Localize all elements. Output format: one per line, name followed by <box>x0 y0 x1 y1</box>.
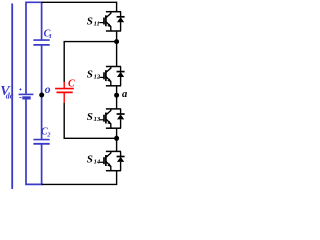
wire junction to S12 collector <box>116 42 118 67</box>
wire top bus blue segment <box>26 2 43 93</box>
svg-text:C: C <box>68 78 75 89</box>
svg-text:S: S <box>87 153 93 165</box>
battery plus sign <box>19 88 21 90</box>
node o junction dot <box>39 93 44 98</box>
svg-text:o: o <box>45 82 51 96</box>
battery negative plate <box>22 96 30 99</box>
wire S11 emitter to junction <box>116 31 118 42</box>
svg-text:1: 1 <box>49 33 52 40</box>
svg-text:a: a <box>122 89 127 100</box>
svg-text:S: S <box>87 111 93 123</box>
label S11 <box>87 15 100 27</box>
label S13 <box>87 111 101 123</box>
label Vdc <box>0 84 14 101</box>
label C1 <box>44 29 52 41</box>
battery positive plate <box>19 93 34 95</box>
switch S11 IGBT with diode <box>99 12 124 31</box>
svg-text:2: 2 <box>46 132 51 139</box>
svg-text:S: S <box>87 15 93 27</box>
svg-text:14: 14 <box>94 158 101 165</box>
DC source Vdc annotation line <box>11 4 13 188</box>
wire battery to bottom bus blue segment <box>26 98 43 184</box>
svg-text:dc: dc <box>6 92 14 101</box>
battery minus sign <box>19 97 21 99</box>
capacitor C2 <box>33 140 49 144</box>
wire S14 emitter to bottom bus black segment <box>42 170 117 184</box>
junction dot S11-S12 <box>114 39 119 44</box>
wire S13 emitter to junction <box>116 128 118 138</box>
label C flying capacitor <box>68 78 75 89</box>
label S14 <box>87 153 101 165</box>
wire S12 emitter to node a <box>116 86 118 109</box>
switch S14 IGBT with diode <box>99 151 124 170</box>
label C2 <box>41 126 51 138</box>
flying capacitor C (red) <box>55 82 74 103</box>
wire top bus black segment <box>42 2 117 11</box>
switch S13 IGBT with diode <box>99 109 124 128</box>
junction dot S13-S14 <box>114 136 119 141</box>
label node o <box>45 82 51 96</box>
svg-text:13: 13 <box>94 116 101 123</box>
wire junction to flying capacitor top <box>64 42 116 82</box>
capacitor C1 <box>33 40 49 45</box>
label node a <box>122 89 127 100</box>
switch S12 IGBT with diode <box>99 67 124 86</box>
label S12 <box>87 69 101 81</box>
svg-text:S: S <box>87 69 93 81</box>
wire capacitor rail middle <box>41 45 43 140</box>
wire junction to S14 collector <box>116 138 118 151</box>
wire capacitor rail upper <box>41 2 43 40</box>
svg-text:11: 11 <box>94 20 100 27</box>
svg-text:12: 12 <box>94 74 101 81</box>
wire capacitor rail lower <box>41 144 43 185</box>
node a junction dot <box>114 93 119 98</box>
wire flying capacitor bottom to junction <box>64 103 116 139</box>
